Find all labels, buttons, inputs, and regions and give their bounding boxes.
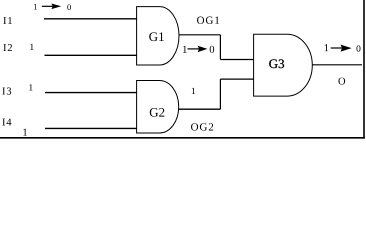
value 1 on input I3 [29, 84, 32, 90]
AND gate G1 outline [137, 7, 179, 65]
wire G3 output to border [312, 64, 362, 66]
value 1 on net OG2 [192, 88, 195, 94]
AND gate G3 outline [254, 34, 313, 96]
gate G2 label [150, 108, 165, 117]
annotation arrow on output [331, 45, 352, 52]
wire G2 output horizontal [179, 108, 221, 110]
node I3 label [2, 88, 11, 95]
annotation 1 (old value) on input I1 [34, 4, 37, 10]
annotation 0 (new value) on net OG1 [210, 46, 214, 53]
annotation 1 (old value) on output [325, 44, 329, 51]
node I4 label [2, 119, 11, 126]
wire I1 to G1 upper input [44, 18, 137, 20]
node O output label [338, 78, 345, 85]
value 1 on input I2 [30, 44, 33, 50]
annotation 1 (old value) on net OG1 [183, 46, 187, 53]
net label OG1 [197, 17, 219, 24]
value 1 on input I4 [23, 129, 27, 136]
annotation arrow on net OG1 [188, 46, 208, 52]
wire I3 to G2 upper input [45, 92, 137, 94]
wire into G3 upper input [220, 59, 253, 61]
wire I4 to G2 lower input [45, 127, 137, 129]
annotation arrow on input I1 [42, 4, 61, 10]
gate G3 label [269, 59, 284, 68]
AND gate G2 outline [137, 81, 179, 134]
net label OG2 [191, 123, 213, 130]
node I1 label [3, 17, 12, 24]
annotation 0 (new value) on input I1 [67, 4, 71, 10]
border right [363, 0, 365, 139]
wire into G3 lower input [220, 78, 253, 80]
wire OG2 vertical segment [219, 79, 221, 109]
wire I2 to G1 lower input [45, 54, 137, 56]
gate G1 label [149, 32, 164, 41]
wire G1 output horizontal [179, 34, 220, 36]
annotation 0 (new value) on output [356, 45, 360, 51]
node I2 label [3, 44, 12, 51]
border bottom [0, 137, 365, 139]
wire OG1 vertical segment [219, 35, 221, 60]
